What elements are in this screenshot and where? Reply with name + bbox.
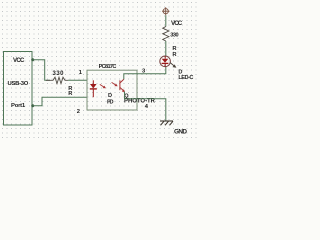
wire collector to pin 3 — [124, 74, 137, 80]
light arrows — [100, 82, 118, 88]
svg-text:PHOTO-TR: PHOTO-TR — [124, 99, 156, 105]
USB connector box — [4, 52, 33, 126]
LED D1 LED-C — [160, 56, 171, 67]
svg-text:GND: GND — [174, 129, 187, 136]
svg-text:PC817C: PC817C — [99, 64, 117, 70]
svg-text:USB-3O: USB-3O — [8, 81, 29, 87]
node VCC pin junction — [31, 58, 34, 61]
wire resistor R2 to LED — [165, 41, 167, 56]
wire pin 3 to LED branch — [137, 67, 166, 74]
transistor Q (photo-transistor) — [120, 79, 124, 91]
wire Port1 to opto pin 2 — [33, 97, 87, 106]
svg-text:VCC: VCC — [171, 20, 183, 27]
wire VCC pin to resistor R1 — [33, 60, 50, 81]
svg-text:Port1: Port1 — [11, 103, 26, 109]
resistor R1 330 — [46, 77, 68, 83]
ground — [160, 121, 173, 125]
wire emitter to pin 4 — [125, 92, 138, 99]
wire VCC to resistor R2 — [165, 15, 167, 26]
LED light arrow — [170, 63, 176, 68]
svg-text:330: 330 — [53, 71, 65, 77]
wire resistor R1 to opto pin 1 — [68, 79, 87, 81]
power terminal VCC — [162, 7, 170, 15]
node Port1 pin junction — [31, 104, 34, 107]
optocoupler U1 PC817C box — [87, 70, 137, 110]
svg-text:D: D — [108, 93, 112, 99]
diode PD (opto LED, pointing down) — [90, 80, 97, 97]
svg-text:330: 330 — [170, 33, 178, 39]
svg-text:2: 2 — [77, 109, 80, 115]
svg-text:VCC: VCC — [13, 58, 25, 64]
resistor R2 330 (vertical) — [163, 27, 169, 42]
svg-text:LED-C: LED-C — [178, 75, 193, 81]
wire pin 4 to ground — [137, 99, 166, 121]
svg-text:PD: PD — [107, 99, 114, 105]
